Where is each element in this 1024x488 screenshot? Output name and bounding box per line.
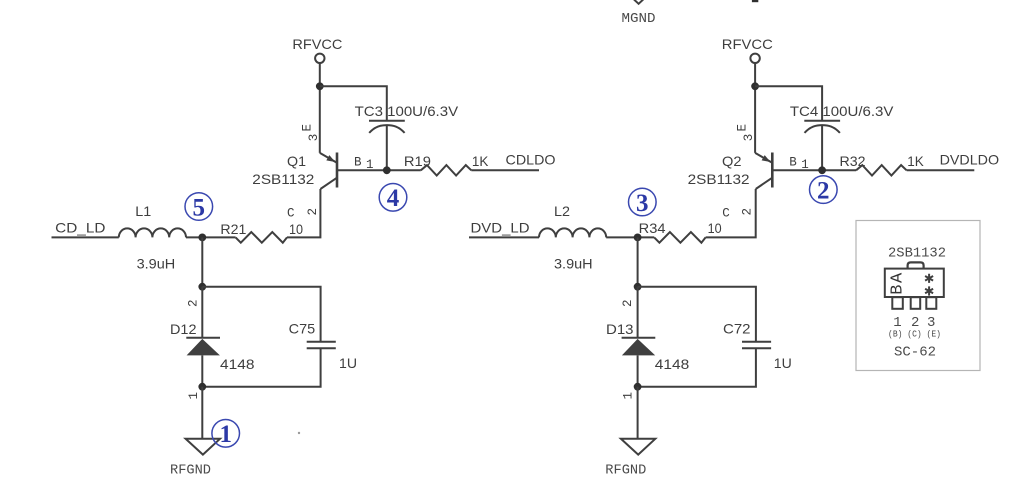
wire to ground (201, 387, 203, 439)
resistor R34 (654, 232, 705, 243)
svg-text:L2: L2 (554, 203, 570, 219)
svg-text:1U: 1U (774, 355, 792, 371)
wire top feed to capacitor (755, 86, 822, 120)
svg-text:L1: L1 (135, 203, 151, 219)
svg-text:CD_LD: CD_LD (55, 219, 105, 235)
wire emitter vertical (319, 64, 321, 153)
node 4 marker (379, 184, 407, 213)
node 2 marker (810, 176, 838, 205)
wire output net CDLDO (471, 169, 539, 171)
svg-text:TC4 100U/6.3V: TC4 100U/6.3V (790, 103, 894, 119)
svg-text:2SB1132: 2SB1132 (688, 171, 750, 187)
svg-text:RFGND: RFGND (605, 463, 646, 479)
capacitor C75 (307, 342, 336, 349)
junction dot base node (383, 166, 391, 174)
wire diode to lower node (201, 355, 203, 386)
wire top of capacitor C72 (638, 287, 756, 341)
svg-text:MGND: MGND (622, 11, 656, 27)
svg-text:4: 4 (387, 185, 400, 212)
junction dot node low (198, 383, 206, 391)
wire base (337, 169, 421, 171)
svg-text:SC-62: SC-62 (894, 345, 936, 361)
package body (885, 269, 944, 297)
inductor L1 (119, 228, 186, 237)
svg-text:1: 1 (219, 421, 232, 448)
junction dot node low (634, 383, 642, 391)
svg-text:2: 2 (621, 300, 635, 308)
svg-text:RFGND: RFGND (170, 463, 211, 479)
svg-text:2SB1132: 2SB1132 (252, 171, 314, 187)
transistor Q2 (755, 153, 772, 190)
junction dot at RFVCC branch (751, 82, 759, 90)
svg-text:C75: C75 (289, 321, 316, 337)
svg-text:D13: D13 (606, 321, 634, 337)
svg-text:DVDLDO: DVDLDO (940, 152, 1000, 168)
wire node down (201, 237, 203, 286)
resistor R21 (236, 232, 287, 243)
package marking asterisk 1 (925, 274, 933, 283)
svg-text:1K: 1K (907, 153, 924, 169)
package marking asterisk 2 (925, 286, 933, 295)
ground RFGND symbol (621, 439, 655, 455)
node 1 marker (212, 420, 240, 449)
svg-text:Q1: Q1 (287, 153, 306, 169)
wire top feed to capacitor (320, 86, 387, 120)
svg-text:10: 10 (289, 221, 303, 237)
svg-text:1: 1 (187, 392, 201, 400)
wire emitter vertical (754, 64, 756, 153)
svg-text:4148: 4148 (655, 356, 690, 372)
junction dot node main (634, 234, 642, 242)
svg-text:CDLDO: CDLDO (506, 152, 556, 168)
package outline box SC-62 (856, 221, 980, 371)
diode D13 (622, 338, 656, 356)
resistor R19 (421, 165, 472, 175)
wire inductor to node (606, 236, 654, 238)
wire inductor to node (186, 236, 236, 238)
svg-text:3: 3 (307, 134, 321, 142)
wire base (772, 169, 856, 171)
wire output net DVDLDO (907, 169, 975, 171)
svg-text:E: E (300, 124, 314, 132)
svg-text:2: 2 (187, 300, 201, 308)
wire bottom of capacitor (202, 348, 320, 386)
svg-text:4148: 4148 (220, 356, 255, 372)
node 3 marker (629, 188, 657, 217)
capacitor C72 (742, 342, 771, 349)
capacitor TC3 polarized (369, 121, 405, 171)
svg-text:RFVCC: RFVCC (292, 36, 342, 52)
svg-text:2: 2 (306, 208, 320, 216)
svg-text:Q2: Q2 (722, 153, 742, 169)
svg-text:C: C (287, 207, 295, 221)
junction dot node main (198, 234, 206, 242)
diode D12 (186, 338, 220, 356)
wire resistor to collector (287, 189, 320, 237)
wire to diode (637, 287, 639, 337)
wire diode to lower node (637, 355, 639, 386)
svg-text:1: 1 (621, 392, 635, 400)
svg-text:1: 1 (366, 158, 374, 172)
power RFVCC terminal circle (315, 54, 324, 63)
svg-text:D12: D12 (170, 321, 197, 337)
svg-text:3.9uH: 3.9uH (554, 255, 593, 271)
svg-text:C72: C72 (723, 321, 751, 337)
wire fragment top edge (752, 0, 758, 2)
ground RFGND symbol (186, 439, 220, 455)
resistor R32 (856, 165, 907, 175)
svg-text:10: 10 (708, 220, 722, 236)
svg-text:3.9uH: 3.9uH (137, 255, 176, 271)
svg-text:2: 2 (740, 208, 754, 216)
svg-text:R19: R19 (404, 153, 431, 169)
wire to ground (637, 387, 639, 439)
svg-text:3: 3 (636, 190, 649, 217)
speck (298, 432, 300, 434)
capacitor TC4 polarized (804, 121, 840, 171)
wire to diode (201, 287, 203, 337)
svg-text:(B) (C) (E): (B) (C) (E) (888, 329, 941, 340)
package tab (908, 262, 924, 268)
wire CD_LD net stub (52, 236, 119, 238)
svg-text:1U: 1U (339, 355, 357, 371)
svg-text:E: E (736, 124, 750, 132)
svg-text:B: B (789, 155, 797, 169)
inductor L2 (539, 228, 606, 237)
svg-text:RFVCC: RFVCC (722, 36, 773, 52)
node 5 marker (185, 193, 213, 222)
wire resistor to collector (706, 189, 756, 237)
power RFVCC terminal circle (750, 54, 759, 63)
svg-text:R21: R21 (220, 221, 246, 237)
junction dot at RFVCC branch (316, 82, 324, 90)
package leg 3 (926, 297, 936, 309)
power symbol MGND (cut off at top) (634, 0, 643, 4)
svg-text:TC3 100U/6.3V: TC3 100U/6.3V (355, 103, 459, 119)
svg-text:DVD_LD: DVD_LD (471, 219, 530, 235)
svg-text:1K: 1K (472, 153, 489, 169)
svg-text:2: 2 (817, 177, 830, 204)
wire top of capacitor C75 (202, 287, 320, 341)
svg-text:5: 5 (193, 194, 206, 221)
junction dot base node (818, 166, 826, 174)
svg-text:R34: R34 (639, 220, 666, 236)
wire node down (637, 237, 639, 286)
wire bottom of capacitor (638, 348, 756, 386)
junction dot node mid (198, 283, 206, 291)
svg-text:C: C (722, 207, 730, 221)
svg-text:3: 3 (742, 134, 756, 142)
svg-text:2SB1132: 2SB1132 (888, 246, 946, 262)
package leg 1 (892, 297, 903, 309)
package leg 2 (911, 297, 921, 309)
transistor Q1 (320, 153, 337, 190)
svg-text:1: 1 (801, 158, 809, 172)
wire DVD_LD net stub (469, 236, 539, 238)
svg-text:R32: R32 (840, 153, 866, 169)
svg-text:BA: BA (888, 271, 907, 294)
svg-text:B: B (354, 155, 362, 169)
junction dot node mid (634, 283, 642, 291)
